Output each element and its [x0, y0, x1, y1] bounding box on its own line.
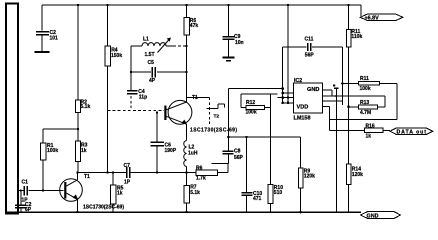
svg-text:4P: 4P	[149, 78, 156, 84]
op-amp IC2 LM158	[294, 78, 323, 122]
wire dashed L1 to T2 column	[173, 45, 187, 47]
wire x287 from rail to pin2	[287, 4, 289, 103]
wire y137 rail	[227, 136, 300, 168]
capacitor C7	[124, 163, 131, 185]
wire x270 column	[270, 94, 272, 184]
svg-text:T1: T1	[192, 95, 198, 101]
svg-text:150k: 150k	[111, 53, 122, 59]
wire T1 collector/emitter	[76, 171, 78, 213]
svg-text:5.1k: 5.1k	[190, 190, 200, 196]
svg-text:4.7M: 4.7M	[360, 110, 371, 116]
svg-text:11p: 11p	[139, 94, 147, 100]
svg-text:C5: C5	[148, 60, 155, 66]
wire C3 branch	[41, 5, 43, 51]
svg-text:1SC1730(2SC-69): 1SC1730(2SC-69)	[190, 127, 237, 133]
resistor R12	[241, 94, 278, 115]
svg-text:190P: 190P	[165, 148, 177, 154]
capacitor C9	[223, 4, 244, 57]
svg-text:56P: 56P	[234, 155, 244, 161]
resistor R11	[341, 76, 397, 92]
svg-text:1.5T: 1.5T	[145, 52, 155, 58]
svg-text:GND: GND	[307, 87, 319, 93]
svg-text:100k: 100k	[360, 86, 371, 92]
capacitor C12	[323, 85, 339, 96]
svg-text:R13: R13	[360, 100, 369, 106]
node GND flag	[361, 212, 401, 220]
resistor R3	[76, 141, 88, 162]
wire top supply rail	[42, 5, 361, 16]
resistor R7	[184, 173, 200, 214]
svg-text:56P: 56P	[305, 53, 315, 59]
capacitor C2	[36, 30, 58, 42]
svg-text:C7: C7	[124, 163, 131, 169]
wire output pin and feedback	[323, 83, 397, 130]
svg-text:5.1k: 5.1k	[81, 104, 91, 110]
resistor R2	[76, 100, 91, 113]
svg-text:T1: T1	[84, 174, 90, 180]
svg-text:R11: R11	[360, 76, 369, 82]
resistor R5	[110, 173, 123, 213]
svg-text:1k: 1k	[81, 148, 87, 154]
transistor T1	[60, 174, 90, 201]
svg-text:DATA out: DATA out	[397, 129, 427, 135]
capacitor C1	[19, 179, 64, 203]
ground bar under C2	[35, 51, 50, 53]
svg-text:101: 101	[50, 36, 59, 42]
T1 part label	[83, 204, 124, 210]
wire base divider	[42, 128, 79, 192]
wire R4 branch	[106, 4, 108, 173]
wire x78 branch	[77, 4, 79, 173]
svg-text:IC2: IC2	[294, 78, 302, 84]
capacitor C2b 6P	[15, 189, 32, 213]
capacitor C11	[283, 37, 343, 59]
resistor R16	[364, 123, 390, 139]
svg-text:10n: 10n	[235, 40, 244, 46]
svg-text:L1: L1	[143, 37, 149, 43]
svg-text:120k: 120k	[352, 172, 363, 178]
svg-text:47k: 47k	[190, 23, 199, 29]
svg-text:R16: R16	[366, 123, 375, 129]
capacitor C5	[130, 60, 188, 84]
svg-text:C1: C1	[22, 179, 29, 185]
ground under C9	[223, 58, 235, 61]
wire dashed base line	[108, 110, 165, 112]
svg-text:C11: C11	[305, 37, 314, 43]
svg-text:1k: 1k	[366, 133, 372, 139]
svg-text:510: 510	[274, 190, 283, 196]
svg-text:471: 471	[253, 196, 262, 202]
resistor R13	[323, 95, 385, 116]
svg-text:1.7k: 1.7k	[196, 176, 206, 182]
svg-text:110k: 110k	[351, 34, 362, 40]
wire comparator input from C8 node	[229, 87, 285, 137]
svg-text:1k: 1k	[117, 191, 123, 197]
svg-text:VDD: VDD	[297, 104, 309, 110]
svg-text:120k: 120k	[304, 174, 315, 180]
capacitor C10	[242, 137, 263, 212]
transistor T2	[165, 100, 192, 124]
svg-text:C8: C8	[234, 149, 241, 155]
svg-text:LM158: LM158	[294, 116, 311, 122]
capacitor C8	[222, 137, 243, 164]
wire pin2 right stub	[323, 88, 343, 212]
node +6.8V flag	[360, 14, 403, 21]
antenna	[6, 4, 18, 214]
resistor R1	[40, 143, 58, 160]
wire mid horizontal	[78, 171, 187, 173]
svg-text:1P: 1P	[124, 179, 131, 185]
wire C11 left down to pin1	[282, 47, 284, 103]
T2 part label	[190, 127, 237, 133]
wire C11 right column down	[342, 47, 344, 105]
resistor R4	[105, 46, 122, 66]
svg-text:T2: T2	[214, 114, 220, 120]
svg-text:R12: R12	[246, 100, 255, 106]
resistor R17	[346, 4, 362, 164]
node DATA out flag	[390, 128, 433, 135]
resistor R6 horizontal	[185, 164, 228, 182]
svg-text:+6.8V: +6.8V	[365, 16, 380, 22]
wire ground rail	[5, 211, 361, 213]
capacitor C4	[127, 72, 147, 111]
inductor L1	[131, 37, 173, 73]
wire IC left pins	[278, 92, 294, 105]
svg-text:100k: 100k	[246, 110, 257, 116]
capacitor C6	[151, 111, 177, 172]
svg-text:100k: 100k	[47, 148, 58, 154]
inductor L2	[184, 124, 198, 172]
resistor R14	[346, 164, 363, 212]
svg-text:1SC1730(2SC-69): 1SC1730(2SC-69)	[83, 204, 124, 210]
svg-text:1uH: 1uH	[188, 151, 198, 157]
resistor R6 top	[184, 4, 199, 103]
resistor R9	[298, 168, 315, 213]
svg-text:GND: GND	[367, 213, 379, 219]
resistor R10	[268, 185, 283, 213]
wire T2 collector stub and trimmer	[187, 95, 225, 124]
svg-text:R6: R6	[196, 166, 203, 172]
